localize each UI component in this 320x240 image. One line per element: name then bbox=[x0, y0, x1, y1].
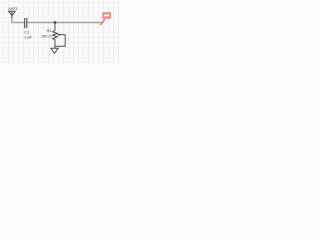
svg-text:1 pF: 1 pF bbox=[24, 35, 33, 40]
svg-text:ANT1: ANT1 bbox=[8, 7, 17, 11]
svg-text:100 Ω: 100 Ω bbox=[41, 34, 52, 39]
svg-text:R1: R1 bbox=[46, 28, 52, 33]
